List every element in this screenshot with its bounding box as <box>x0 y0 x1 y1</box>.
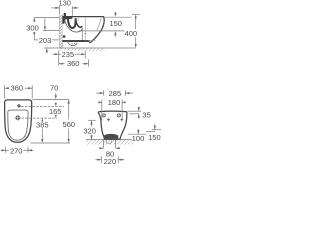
front ext <box>31 142 71 144</box>
svg-text:130: 130 <box>58 0 71 8</box>
400 <box>132 13 140 15</box>
165 arrows at x=55.8 <box>55 102 57 105</box>
inner bowl front line <box>97 18 101 30</box>
385 line <box>41 119 43 122</box>
285 <box>103 90 105 95</box>
203 upper ref line <box>43 30 59 32</box>
drain dark base <box>104 134 119 139</box>
300 top line <box>34 16 59 18</box>
texts side view <box>26 0 137 68</box>
70 arrow vertical <box>55 93 57 96</box>
S-trap dark curve <box>68 17 76 28</box>
100 <box>128 133 147 135</box>
130 dim <box>58 6 60 15</box>
360 top <box>4 85 6 98</box>
svg-text:165: 165 <box>49 107 62 116</box>
svg-text:360: 360 <box>67 59 80 68</box>
plan dims <box>1 85 70 153</box>
drain mark <box>15 115 21 121</box>
bidet profile <box>62 17 104 43</box>
drain dashed line <box>22 117 58 119</box>
80 <box>99 147 103 149</box>
top edge ext to right <box>33 99 70 101</box>
plus marks <box>107 118 110 121</box>
svg-text:100: 100 <box>132 134 145 143</box>
svg-text:400: 400 <box>125 29 138 38</box>
interior shelf line <box>79 30 125 32</box>
inlet mark on wall <box>63 35 66 37</box>
svg-text:70: 70 <box>50 83 58 92</box>
svg-text:220: 220 <box>104 157 117 166</box>
svg-text:235: 235 <box>62 50 75 59</box>
floor <box>59 48 104 51</box>
deck dark section <box>62 16 72 24</box>
body <box>98 111 127 139</box>
svg-text:360: 360 <box>11 84 24 93</box>
svg-text:35: 35 <box>142 110 150 119</box>
tap dashed line <box>21 105 64 107</box>
320 <box>88 119 96 121</box>
270 <box>5 147 7 153</box>
wall <box>59 15 62 48</box>
tap on deck <box>64 13 66 16</box>
svg-text:385: 385 <box>36 121 49 130</box>
svg-text:270: 270 <box>10 147 23 156</box>
svg-text:320: 320 <box>83 127 96 136</box>
180 <box>101 100 103 121</box>
svg-text:203: 203 <box>39 36 52 45</box>
floor <box>87 140 134 145</box>
560 line <box>68 100 70 120</box>
pedestal back edge <box>81 28 83 41</box>
tap hole diamond <box>17 104 21 108</box>
220 <box>100 156 102 163</box>
underside line <box>62 40 89 42</box>
svg-text:300: 300 <box>26 24 39 33</box>
150 <box>152 129 161 131</box>
fixing holes <box>102 114 105 117</box>
35 lines <box>128 110 142 112</box>
150 arrows <box>114 12 116 14</box>
inner rim <box>8 110 28 140</box>
rear dims <box>88 90 161 163</box>
dimensions, side view <box>34 6 140 67</box>
svg-text:150: 150 <box>148 133 161 142</box>
svg-text:285: 285 <box>109 89 122 98</box>
360 <box>87 59 89 66</box>
outer outline <box>5 100 32 142</box>
svg-text:150: 150 <box>109 19 122 28</box>
235 <box>58 51 60 66</box>
trap lower wall <box>64 20 82 32</box>
svg-text:180: 180 <box>108 98 121 107</box>
svg-text:560: 560 <box>63 120 76 129</box>
drain cup at floor <box>68 42 78 46</box>
arrowheads side view <box>33 7 137 65</box>
center line <box>84 18 86 41</box>
pipe below floor <box>103 140 105 149</box>
